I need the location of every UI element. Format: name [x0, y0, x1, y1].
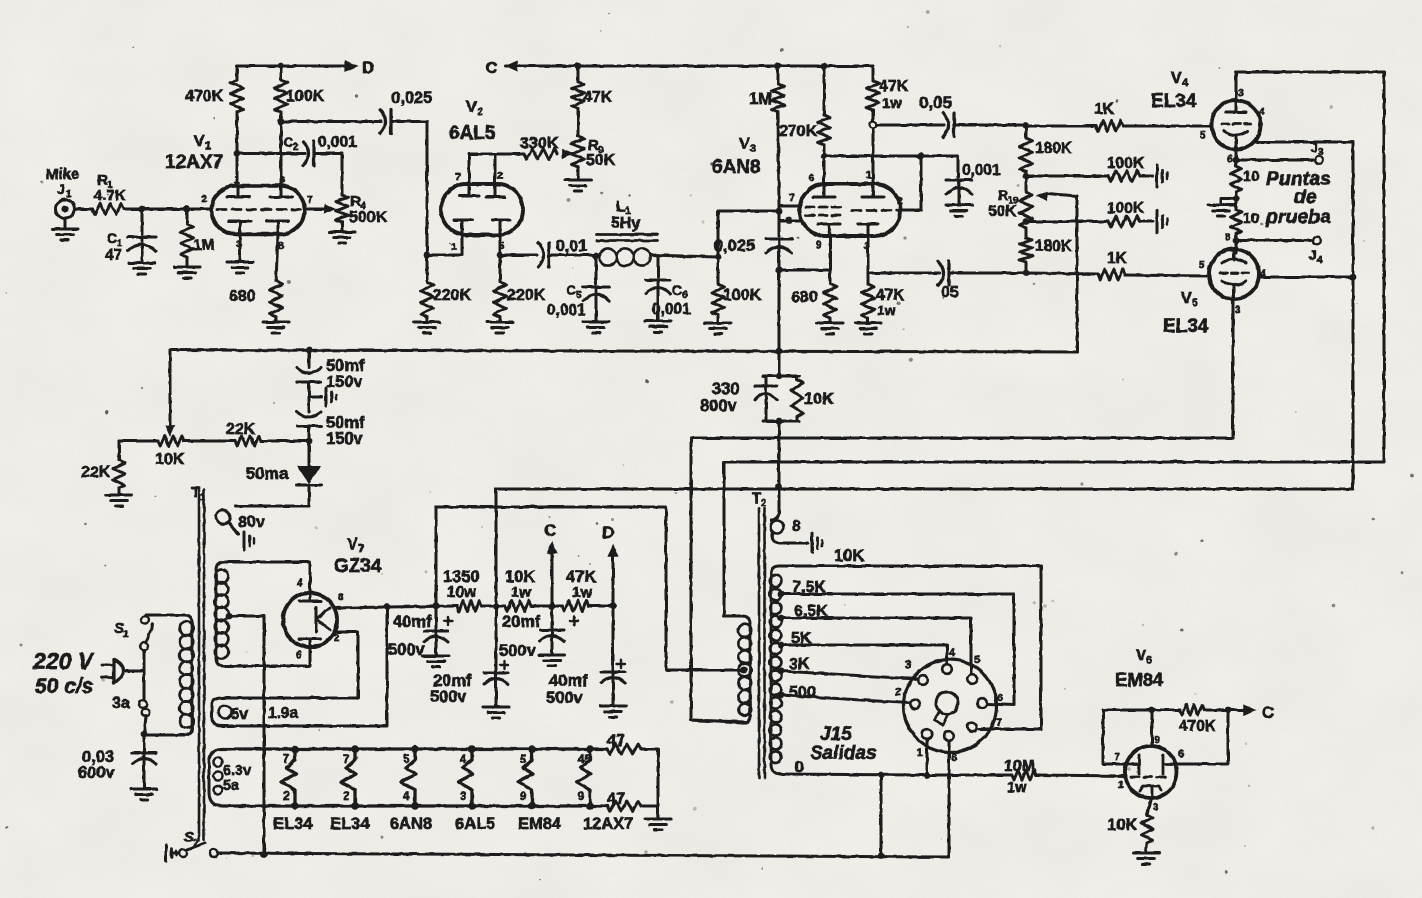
- svg-text:10: 10: [1243, 169, 1259, 185]
- svg-text:6AL5: 6AL5: [449, 123, 496, 144]
- svg-text:500v: 500v: [388, 641, 426, 659]
- svg-text:500v: 500v: [430, 688, 468, 706]
- svg-text:5: 5: [520, 754, 527, 766]
- svg-text:0,025: 0,025: [391, 89, 432, 107]
- svg-text:6AN8: 6AN8: [712, 157, 761, 178]
- svg-text:V: V: [1136, 647, 1146, 664]
- svg-text:1.9a: 1.9a: [268, 705, 299, 722]
- svg-text:1: 1: [123, 629, 129, 640]
- svg-text:1: 1: [205, 140, 211, 152]
- svg-text:5: 5: [403, 754, 410, 766]
- svg-text:R: R: [998, 187, 1008, 203]
- svg-text:1: 1: [866, 169, 872, 181]
- svg-text:C: C: [107, 230, 117, 246]
- svg-text:0: 0: [795, 759, 804, 776]
- svg-text:8: 8: [338, 591, 344, 603]
- svg-text:8: 8: [792, 518, 801, 535]
- svg-text:J: J: [1309, 247, 1317, 263]
- svg-text:470K: 470K: [185, 88, 224, 105]
- svg-text:10M: 10M: [1004, 758, 1035, 775]
- svg-text:T: T: [752, 490, 761, 507]
- svg-text:0,01: 0,01: [556, 238, 587, 255]
- svg-text:47: 47: [105, 247, 122, 264]
- svg-text:22K: 22K: [226, 421, 256, 438]
- svg-text:330K: 330K: [520, 135, 559, 152]
- svg-text:6: 6: [997, 692, 1003, 704]
- svg-text:270K: 270K: [779, 123, 818, 140]
- svg-text:7.5K: 7.5K: [792, 579, 826, 596]
- svg-text:45: 45: [578, 754, 591, 766]
- svg-text:80v: 80v: [238, 514, 265, 531]
- svg-text:3: 3: [1238, 87, 1244, 99]
- svg-text:40mf: 40mf: [549, 672, 588, 690]
- svg-text:5: 5: [1200, 129, 1206, 141]
- svg-text:1: 1: [200, 492, 206, 503]
- svg-text:9: 9: [1154, 734, 1160, 746]
- svg-text:40mf: 40mf: [393, 613, 432, 631]
- svg-text:EL34: EL34: [330, 815, 370, 833]
- svg-text:V: V: [194, 133, 205, 150]
- svg-text:2: 2: [283, 791, 289, 803]
- svg-text:GZ34: GZ34: [334, 556, 382, 577]
- svg-text:9: 9: [816, 239, 822, 251]
- svg-text:0,001: 0,001: [652, 301, 691, 318]
- svg-text:4: 4: [297, 577, 303, 589]
- svg-text:22K: 22K: [81, 464, 111, 481]
- svg-text:4: 4: [460, 754, 467, 766]
- svg-text:500v: 500v: [546, 689, 584, 707]
- svg-text:10K: 10K: [834, 547, 864, 565]
- svg-text:1: 1: [917, 747, 923, 759]
- svg-text:6AN8: 6AN8: [390, 815, 432, 833]
- svg-text:3K: 3K: [789, 656, 810, 673]
- svg-text:1: 1: [451, 241, 457, 253]
- svg-text:100K: 100K: [286, 88, 325, 105]
- svg-text:680: 680: [791, 289, 818, 306]
- svg-text:50ma: 50ma: [246, 465, 289, 483]
- svg-text:D: D: [362, 58, 374, 77]
- svg-text:7: 7: [343, 754, 349, 766]
- svg-text:3: 3: [1318, 147, 1324, 158]
- svg-text:5: 5: [576, 290, 582, 301]
- svg-text:C: C: [486, 60, 498, 77]
- svg-text:V: V: [1181, 290, 1192, 307]
- svg-text:680: 680: [229, 288, 256, 305]
- svg-text:3: 3: [460, 791, 466, 803]
- svg-text:500v: 500v: [499, 642, 537, 660]
- svg-text:0,05: 0,05: [919, 93, 952, 112]
- svg-text:12AX7: 12AX7: [165, 152, 223, 173]
- svg-text:1w: 1w: [572, 584, 592, 601]
- svg-text:10w: 10w: [447, 584, 477, 601]
- svg-text:47K: 47K: [583, 89, 613, 106]
- svg-text:EL34: EL34: [273, 815, 313, 833]
- svg-text:7: 7: [358, 543, 364, 555]
- svg-text:10K: 10K: [804, 390, 834, 408]
- svg-text:180K: 180K: [1035, 140, 1073, 157]
- svg-text:0,001: 0,001: [547, 302, 586, 319]
- svg-text:3: 3: [1153, 801, 1159, 813]
- svg-text:5Hy: 5Hy: [611, 215, 640, 232]
- svg-text:7: 7: [996, 717, 1002, 729]
- svg-text:V: V: [1171, 70, 1182, 87]
- svg-text:2: 2: [477, 106, 483, 118]
- svg-text:4: 4: [1259, 106, 1265, 118]
- svg-text:50K: 50K: [586, 152, 616, 169]
- svg-text:EL34: EL34: [1151, 91, 1197, 112]
- svg-text:10K: 10K: [155, 451, 185, 468]
- svg-text:8: 8: [1225, 231, 1231, 243]
- svg-text:2: 2: [201, 193, 207, 205]
- svg-text:0,001: 0,001: [962, 162, 1001, 179]
- svg-text:V: V: [466, 99, 477, 116]
- svg-text:3: 3: [905, 659, 911, 671]
- svg-text:800v: 800v: [700, 397, 738, 415]
- svg-text:50K: 50K: [988, 203, 1017, 220]
- svg-text:EM84: EM84: [518, 815, 562, 833]
- svg-text:C: C: [672, 282, 682, 298]
- svg-text:220 V: 220 V: [32, 648, 95, 674]
- svg-text:5: 5: [1199, 259, 1205, 271]
- svg-text:6: 6: [1178, 748, 1184, 760]
- svg-text:3: 3: [750, 143, 756, 155]
- svg-text:6: 6: [809, 172, 815, 184]
- svg-text:6: 6: [1227, 153, 1233, 165]
- svg-text:1M: 1M: [193, 237, 215, 254]
- svg-text:47K: 47K: [879, 78, 909, 95]
- svg-text:2: 2: [761, 498, 767, 509]
- svg-text:500: 500: [789, 684, 816, 701]
- svg-text:EL34: EL34: [1163, 316, 1209, 337]
- svg-text:7: 7: [789, 192, 795, 204]
- svg-text:L: L: [616, 198, 625, 215]
- svg-text:1K: 1K: [1107, 250, 1128, 267]
- svg-text:J15: J15: [820, 724, 852, 745]
- svg-text:2: 2: [334, 632, 340, 644]
- svg-text:05: 05: [941, 284, 959, 301]
- svg-text:330: 330: [712, 380, 740, 398]
- svg-text:V: V: [739, 136, 750, 153]
- svg-text:5v: 5v: [231, 706, 249, 723]
- svg-text:5K: 5K: [791, 630, 812, 647]
- svg-text:3a: 3a: [112, 695, 130, 712]
- svg-text:600v: 600v: [78, 764, 116, 782]
- svg-text:Salidas: Salidas: [810, 743, 877, 764]
- svg-text:5: 5: [1192, 297, 1198, 309]
- svg-text:6: 6: [951, 752, 957, 764]
- svg-text:100K: 100K: [1107, 155, 1145, 172]
- svg-text:1w: 1w: [511, 584, 531, 601]
- svg-text:7: 7: [283, 754, 289, 766]
- svg-text:5: 5: [974, 654, 980, 666]
- svg-text:2: 2: [897, 195, 903, 207]
- svg-text:4: 4: [1182, 77, 1189, 89]
- svg-text:6: 6: [296, 649, 302, 661]
- svg-text:6AL5: 6AL5: [455, 815, 495, 833]
- svg-text:D: D: [602, 523, 614, 542]
- svg-text:7: 7: [307, 194, 313, 206]
- svg-text:4: 4: [1317, 255, 1323, 266]
- svg-text:2: 2: [343, 791, 349, 803]
- svg-text:9: 9: [520, 791, 526, 803]
- svg-text:prueba: prueba: [1265, 206, 1331, 228]
- svg-text:3: 3: [1235, 304, 1241, 316]
- svg-text:500K: 500K: [349, 209, 388, 226]
- svg-text:C: C: [544, 521, 556, 540]
- svg-text:1w: 1w: [1007, 780, 1027, 796]
- svg-text:8: 8: [786, 215, 792, 227]
- svg-text:220K: 220K: [433, 287, 472, 304]
- svg-text:1: 1: [1118, 779, 1124, 791]
- svg-text:6: 6: [682, 290, 688, 301]
- svg-text:5a: 5a: [223, 778, 240, 794]
- svg-text:150v: 150v: [326, 373, 364, 391]
- svg-text:de: de: [1294, 186, 1317, 208]
- svg-text:2: 2: [497, 170, 503, 182]
- svg-text:220K: 220K: [507, 287, 546, 304]
- svg-text:6: 6: [1146, 655, 1152, 666]
- svg-text:C: C: [1262, 703, 1274, 722]
- svg-text:50 c/s: 50 c/s: [35, 675, 93, 698]
- svg-text:2: 2: [293, 142, 299, 153]
- svg-text:T: T: [191, 484, 200, 501]
- svg-text:150v: 150v: [326, 430, 364, 448]
- svg-text:1K: 1K: [1094, 101, 1115, 118]
- svg-text:0,001: 0,001: [318, 134, 357, 151]
- svg-text:180K: 180K: [1035, 238, 1073, 255]
- svg-text:1w: 1w: [877, 302, 896, 318]
- svg-text:100K: 100K: [1107, 200, 1145, 217]
- svg-text:1M: 1M: [749, 90, 772, 108]
- svg-text:20mf: 20mf: [502, 613, 541, 631]
- svg-text:C: C: [566, 282, 576, 298]
- svg-text:10K: 10K: [1107, 816, 1137, 834]
- svg-text:6.3v: 6.3v: [223, 763, 251, 779]
- svg-text:10: 10: [1243, 211, 1259, 227]
- svg-text:2: 2: [193, 838, 199, 849]
- svg-text:V: V: [347, 536, 358, 553]
- svg-text:100K: 100K: [723, 287, 762, 304]
- svg-text:47: 47: [607, 732, 625, 750]
- svg-text:7: 7: [455, 171, 461, 183]
- svg-text:4: 4: [949, 647, 956, 659]
- svg-text:9: 9: [578, 791, 584, 803]
- svg-text:J: J: [1310, 139, 1318, 155]
- svg-text:1w: 1w: [882, 96, 902, 112]
- svg-text:7: 7: [1114, 751, 1120, 763]
- svg-text:470K: 470K: [1179, 718, 1217, 735]
- svg-text:12AX7: 12AX7: [583, 815, 633, 833]
- svg-text:6.5K: 6.5K: [794, 603, 828, 620]
- svg-text:EM84: EM84: [1115, 669, 1164, 690]
- svg-text:4.7K: 4.7K: [94, 187, 126, 204]
- svg-text:0,025: 0,025: [714, 237, 755, 255]
- svg-text:C: C: [283, 134, 293, 150]
- svg-text:47: 47: [607, 790, 625, 808]
- svg-text:2: 2: [895, 686, 901, 698]
- svg-text:4: 4: [403, 791, 410, 803]
- svg-text:J: J: [57, 181, 65, 197]
